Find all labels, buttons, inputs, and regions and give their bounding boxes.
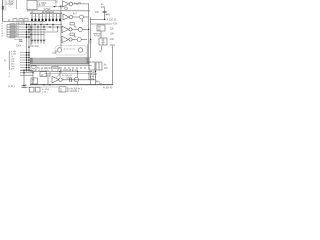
wire under tube bbox=[30, 64, 92, 66]
op-amp U6 bbox=[62, 36, 69, 42]
wire bbox=[23, 71, 25, 88]
vertical bus bbox=[28, 24, 30, 73]
wire top bottom-section bbox=[30, 70, 92, 72]
transistor Q5 bbox=[74, 77, 78, 81]
svg-text:100k: 100k bbox=[66, 78, 72, 80]
node bbox=[43, 84, 44, 85]
node bbox=[76, 3, 77, 4]
wire diagonal feedback bbox=[56, 72, 62, 78]
svg-text:m 4x +: m 4x + bbox=[8, 86, 16, 88]
transistor Q1 bbox=[65, 7, 68, 10]
tube left cap bbox=[30, 58, 33, 64]
wire bbox=[62, 79, 95, 81]
wire bbox=[73, 16, 79, 18]
svg-text:100n: 100n bbox=[16, 46, 22, 48]
resistor R11 bbox=[70, 23, 75, 25]
bottom bus bbox=[30, 84, 113, 86]
tube top edge bbox=[30, 57, 90, 59]
node bbox=[104, 19, 105, 20]
node bbox=[54, 6, 55, 7]
wire bbox=[16, 0, 18, 9]
IC U1 bbox=[27, 1, 37, 10]
wire bbox=[49, 72, 51, 77]
fuse F1 bbox=[2, 6, 4, 10]
labels far left bbox=[1, 23, 3, 37]
wire lamp bottom bbox=[56, 57, 92, 59]
svg-text:x 40 x: x 40 x bbox=[42, 91, 49, 93]
right value labels bbox=[110, 29, 116, 47]
wire top right rail bbox=[91, 23, 112, 25]
node bbox=[60, 6, 61, 7]
capacitor C5 bbox=[69, 78, 71, 82]
relay box bbox=[89, 62, 95, 70]
ground symbol bbox=[99, 83, 102, 85]
lamp gas bbox=[64, 48, 75, 50]
resistors R5-R10 bbox=[10, 24, 15, 38]
comb connector top line bbox=[30, 12, 62, 14]
node bbox=[77, 71, 78, 72]
transformer T1 bbox=[99, 38, 107, 45]
svg-text:x4 1N: x4 1N bbox=[88, 79, 94, 81]
dots row bbox=[60, 67, 89, 68]
transistor Q4 bbox=[77, 37, 81, 41]
wire vertical right bus bbox=[88, 3, 90, 57]
lamp filament left bbox=[57, 48, 61, 52]
capacitor C2 bbox=[103, 10, 107, 12]
junction dots lower bbox=[26, 46, 30, 71]
grid junction dots bbox=[34, 24, 58, 28]
text block right bottom bbox=[88, 72, 101, 84]
wire bbox=[104, 8, 106, 19]
tube bottom edge bbox=[30, 63, 90, 65]
IC U2 box bbox=[38, 0, 56, 7]
resistor R13 bbox=[40, 72, 47, 77]
op-amp U3 bbox=[63, 1, 69, 7]
labels lower ladder bbox=[11, 51, 17, 70]
svg-text:x6: x6 bbox=[1, 36, 3, 38]
op-amp U4 bbox=[63, 14, 69, 20]
terminal box 2 bbox=[52, 66, 58, 71]
wire bbox=[20, 70, 33, 72]
svg-text:4.5V: 4.5V bbox=[113, 24, 118, 26]
wire vertical bbox=[60, 5, 62, 48]
lamp filament right bbox=[78, 48, 82, 52]
wire right vertical bbox=[112, 46, 114, 85]
wire bbox=[14, 39, 22, 41]
lower ladder rows bbox=[20, 53, 29, 71]
wire bbox=[73, 3, 89, 5]
labels bbox=[16, 23, 20, 37]
caption boxes bbox=[30, 87, 35, 92]
vertical bus bbox=[30, 24, 32, 48]
wire AC bbox=[90, 18, 107, 20]
terminal box bbox=[31, 66, 36, 71]
wire bbox=[95, 70, 97, 85]
connector pads bbox=[31, 19, 61, 21]
svg-text:1N: 1N bbox=[78, 3, 81, 5]
svg-text:K7R05: K7R05 bbox=[6, 4, 14, 6]
wire bbox=[20, 74, 33, 76]
wire bbox=[47, 74, 49, 85]
wire bbox=[72, 28, 78, 30]
op-amp U9 bbox=[52, 76, 59, 83]
grid verticals bbox=[32, 25, 58, 41]
wire bus bbox=[27, 10, 90, 12]
wire bbox=[89, 74, 91, 85]
tube body bbox=[30, 58, 90, 64]
relay box 2 bbox=[96, 62, 102, 70]
vertical bus left bbox=[26, 24, 28, 73]
capacitor bank bbox=[31, 40, 45, 42]
wire bbox=[8, 51, 10, 70]
caption box bbox=[59, 87, 66, 92]
transistor Q2 bbox=[80, 15, 84, 19]
wire bbox=[52, 50, 56, 53]
capacitor C3 bbox=[19, 39, 23, 41]
tube right cap bbox=[87, 58, 90, 64]
svg-text:4x BY 40: 4x BY 40 bbox=[103, 87, 113, 89]
svg-text:4x 1N: 4x 1N bbox=[39, 5, 45, 7]
node bbox=[95, 71, 96, 72]
wire left bus bbox=[6, 25, 8, 38]
lamp outline bbox=[55, 46, 87, 56]
wire left input bbox=[2, 0, 4, 21]
wire bbox=[81, 39, 87, 41]
resistor R12 bbox=[70, 33, 75, 35]
resistor R2 bbox=[13, 19, 17, 22]
svg-text:1N4: 1N4 bbox=[101, 7, 106, 9]
inductor L1 bbox=[101, 46, 103, 50]
grid horizontals bbox=[31, 24, 62, 26]
junction dots ladder bbox=[26, 24, 32, 38]
node bbox=[32, 72, 33, 73]
node bbox=[90, 39, 91, 40]
wire bbox=[59, 71, 61, 77]
transistor Q3 bbox=[78, 27, 82, 31]
wire lamp right bbox=[87, 44, 89, 58]
op-amp U5 bbox=[62, 26, 69, 32]
connector mid marks bbox=[31, 15, 61, 17]
svg-text:470uF: 470uF bbox=[94, 36, 101, 38]
svg-text:(k): (k) bbox=[99, 51, 102, 53]
wire bbox=[100, 31, 102, 38]
wire bbox=[84, 16, 89, 18]
IC U7 bbox=[97, 25, 105, 31]
ladder rows left bbox=[7, 25, 31, 38]
svg-text:4x 10n: 4x 10n bbox=[32, 46, 40, 48]
svg-text:4x 40 100 x: 4x 40 100 x bbox=[67, 91, 80, 93]
resistor R3 bbox=[19, 19, 23, 21]
wire bbox=[77, 71, 79, 77]
svg-text:Ex 4x 100 4x 1: Ex 4x 100 4x 1 bbox=[67, 89, 83, 91]
wire bottom bbox=[2, 20, 45, 22]
wire bbox=[20, 72, 33, 74]
wire bbox=[72, 39, 77, 41]
svg-text:Ex BxxExxx: Ex BxxExxx bbox=[42, 12, 55, 14]
node bbox=[59, 71, 60, 72]
wire bbox=[24, 87, 31, 89]
wire bbox=[30, 39, 46, 41]
svg-text:R10: R10 bbox=[89, 39, 91, 44]
svg-text:4x 100 1N: 4x 100 1N bbox=[62, 75, 72, 77]
wire bbox=[53, 6, 62, 8]
resistor R4 bbox=[24, 19, 28, 21]
node bbox=[88, 29, 89, 30]
connector pins bbox=[32, 14, 60, 20]
wire bbox=[32, 71, 34, 84]
wire bbox=[30, 86, 58, 88]
wire vertical bbox=[90, 17, 92, 58]
wire bbox=[105, 14, 109, 16]
wire bbox=[93, 33, 101, 35]
wire bbox=[4, 0, 6, 11]
node bbox=[23, 70, 24, 71]
svg-text:5V: 5V bbox=[55, 1, 58, 3]
svg-text:4 100 10: 4 100 10 bbox=[107, 20, 117, 22]
node bbox=[49, 84, 50, 85]
node bbox=[23, 72, 24, 73]
wire bbox=[82, 28, 88, 30]
IC U8 bbox=[31, 78, 38, 84]
wire bbox=[44, 72, 92, 74]
capacitor C4 bbox=[22, 85, 27, 87]
